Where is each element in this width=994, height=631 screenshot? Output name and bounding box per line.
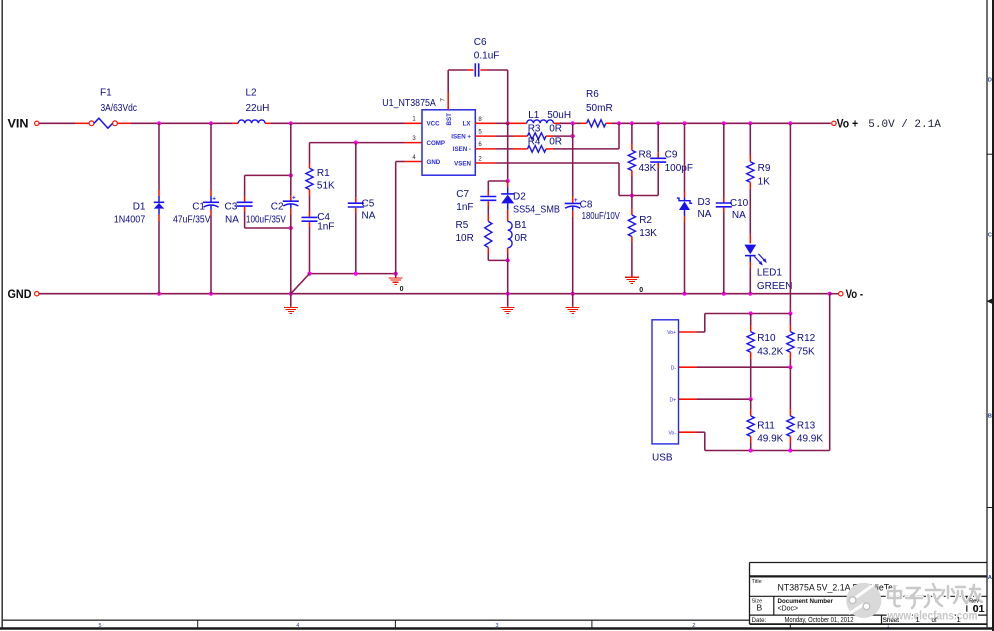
terminal Vo- <box>839 292 843 296</box>
node R1C4 rail junction <box>307 272 311 276</box>
svg-text:C8: C8 <box>580 199 593 210</box>
svg-text:Document Number: Document Number <box>778 598 834 605</box>
label C4 <box>317 212 330 223</box>
node D-/R12 junction <box>788 365 792 369</box>
svg-text:ISEN -: ISEN - <box>453 146 471 153</box>
pin U1.4 GND stub <box>405 155 422 162</box>
svg-text:L2: L2 <box>246 87 258 98</box>
node D2/B1 bottom junction <box>506 258 510 262</box>
svg-text:NA: NA <box>698 209 712 220</box>
wire L1 to R6 <box>554 122 587 124</box>
svg-text:0R: 0R <box>515 233 528 244</box>
svg-text:5.0V / 2.1A: 5.0V / 2.1A <box>868 119 941 131</box>
bottom zone number 2 <box>692 623 695 629</box>
label D1 value 1N4007 <box>114 215 146 226</box>
svg-text:B1: B1 <box>515 220 528 231</box>
label C7 <box>456 189 469 200</box>
svg-text:3: 3 <box>495 623 498 629</box>
wire BST to C6 <box>448 70 473 92</box>
label F1 <box>100 87 112 98</box>
capacitor C2 <box>283 123 299 293</box>
label R6 <box>586 89 599 100</box>
wire USB Vo+ pin <box>679 331 705 333</box>
label D3 <box>698 197 711 208</box>
svg-text:D2: D2 <box>513 191 526 202</box>
title block label Sheet <box>883 617 899 624</box>
zone divider arrow C/B <box>987 299 994 304</box>
pin name GND <box>427 159 441 166</box>
resistor R8 <box>628 123 635 195</box>
svg-text:43K: 43K <box>639 163 657 174</box>
node GND/LED1 <box>748 292 752 296</box>
svg-text:Title: Title <box>752 579 762 585</box>
port GND label <box>8 287 32 301</box>
svg-text:100pF: 100pF <box>665 163 693 174</box>
label C5 <box>362 199 375 210</box>
diode D1 <box>154 123 164 293</box>
node C3 bottom junction <box>289 226 293 230</box>
svg-text:49.9K: 49.9K <box>757 434 783 445</box>
ground 0 at U1 GND <box>389 274 404 293</box>
svg-text:D+: D+ <box>669 397 676 403</box>
wire ISEN+ up to L1 node <box>572 123 574 136</box>
capacitor C5 <box>348 143 364 274</box>
wire C7 branch <box>488 181 507 191</box>
svg-text:ISEN +: ISEN + <box>451 133 471 140</box>
svg-text:0.1uF: 0.1uF <box>474 50 500 61</box>
port Vo+ label <box>837 118 859 130</box>
svg-text:C6: C6 <box>474 37 487 48</box>
svg-text:5: 5 <box>478 129 482 135</box>
svg-text:49.9K: 49.9K <box>797 434 823 445</box>
svg-text:47uF/35V: 47uF/35V <box>173 215 211 226</box>
capacitor C7 <box>480 191 496 215</box>
ground 0 at R2 <box>625 277 643 294</box>
svg-text:VSEN: VSEN <box>454 160 471 167</box>
label C6 <box>474 37 487 48</box>
diode D2 <box>501 181 514 216</box>
pin name VSEN <box>454 160 471 167</box>
wire U1 GND pin net <box>396 162 405 274</box>
bottom zone number 3 <box>495 623 498 629</box>
svg-text:C10: C10 <box>730 198 749 209</box>
wire R12 to R13 <box>789 367 791 409</box>
node GND-pin rail junction <box>394 272 398 276</box>
resistor R1 <box>306 164 313 212</box>
svg-text:Monday, October 01, 2012: Monday, October 01, 2012 <box>785 615 854 624</box>
capacitor C4 <box>302 212 318 274</box>
label R10 value 43.2K <box>757 346 783 357</box>
label C3 value NA <box>225 215 239 226</box>
label R12 <box>797 333 816 344</box>
label R11 value 49.9K <box>757 434 783 445</box>
pin name ISEN- <box>453 146 471 153</box>
node GND/D2 <box>506 292 510 296</box>
svg-text:1nF: 1nF <box>317 222 334 233</box>
svg-text:1: 1 <box>957 615 961 624</box>
svg-text:COMP: COMP <box>427 140 446 147</box>
svg-text:1K: 1K <box>758 176 771 187</box>
svg-text:8: 8 <box>478 117 482 123</box>
ground at C2 <box>284 294 298 314</box>
label R4 value 0R <box>549 136 562 147</box>
pin U1.7 BST stub <box>440 92 448 110</box>
label B1 <box>515 220 528 231</box>
label R9 value 1K <box>758 176 771 187</box>
title block rev 01 overlay <box>973 603 985 615</box>
label LED1 <box>757 268 782 279</box>
node GND/D3 <box>682 292 686 296</box>
title block label Date <box>752 617 767 624</box>
wire C3 bottom branch <box>245 227 291 229</box>
svg-text:50uH: 50uH <box>547 110 571 121</box>
pin name COMP <box>427 140 446 147</box>
svg-text:5: 5 <box>98 623 101 629</box>
node R10 top junction <box>749 311 753 315</box>
svg-text:2: 2 <box>478 156 482 162</box>
node R3/ISEN+ junction <box>571 134 575 138</box>
svg-text:LX: LX <box>463 121 472 128</box>
svg-text:Vo+: Vo+ <box>667 330 676 336</box>
svg-text:F1: F1 <box>100 87 112 98</box>
label C4 value 1nF <box>317 222 334 233</box>
svg-text:BST: BST <box>446 113 453 126</box>
svg-text:R4: R4 <box>528 136 541 147</box>
svg-text:75K: 75K <box>797 346 815 357</box>
label C7 value 1nF <box>456 202 473 213</box>
title block date value <box>785 615 854 624</box>
svg-text:4: 4 <box>412 155 416 161</box>
resistor R10 <box>747 314 754 400</box>
port VIN label <box>8 117 29 131</box>
label C6 value 0.1uF <box>474 50 500 61</box>
node R6/ISEN- junction <box>617 121 621 125</box>
node Vo- corner junction <box>828 292 832 296</box>
label R6 value 50mR <box>586 103 613 114</box>
svg-text:C3: C3 <box>225 202 238 213</box>
LED LED1 <box>744 235 766 294</box>
sheet right outer border line <box>992 0 994 631</box>
wire USB D+ pin <box>679 398 751 400</box>
svg-text:D: D <box>988 78 992 84</box>
svg-text:R1: R1 <box>317 168 330 179</box>
bottom zone number 5 <box>98 623 101 629</box>
node VSEN/R2 junction <box>630 193 634 197</box>
wire C3 top branch <box>245 175 291 196</box>
resistor R3 <box>496 133 573 140</box>
node GND/C8 <box>571 292 575 296</box>
svg-text:6: 6 <box>478 142 482 148</box>
pin U1.8 LX stub <box>475 117 495 123</box>
label D1 <box>133 202 146 213</box>
svg-text:+: + <box>212 196 216 203</box>
wire R12 column feed <box>789 123 791 313</box>
resistor R2 <box>628 196 635 277</box>
label C9 <box>665 149 678 160</box>
node C3 top junction <box>289 173 293 177</box>
svg-text:0: 0 <box>400 286 404 293</box>
label C10 value NA <box>732 210 746 221</box>
svg-text:NT3875A 5V_2.1A For OlieTek: NT3875A 5V_2.1A For OlieTek <box>778 583 898 593</box>
zone letter A <box>988 575 992 581</box>
label R3 <box>528 124 541 135</box>
label L1 value 50uH <box>547 110 571 121</box>
capacitor C6 <box>475 63 478 76</box>
svg-text:GND: GND <box>8 287 32 301</box>
resistor R6 <box>587 120 606 127</box>
svg-text:0R: 0R <box>549 124 562 135</box>
svg-text:LED1: LED1 <box>757 268 782 279</box>
pin name BST <box>446 113 453 126</box>
node GND/C10 <box>722 292 726 296</box>
svg-text:D1: D1 <box>133 202 146 213</box>
svg-text:R8: R8 <box>639 149 652 160</box>
zone letter B <box>988 414 992 420</box>
watermark CJK squiggle <box>888 584 982 608</box>
title block label Title <box>752 579 762 585</box>
label R13 value 49.9K <box>797 434 823 445</box>
title block sheet numbers <box>916 615 961 624</box>
connector USB body <box>652 320 679 444</box>
wire L2 to U1 VCC <box>265 122 405 124</box>
svg-text:1: 1 <box>412 117 416 123</box>
node R13 bottom junction <box>788 448 792 452</box>
zone letter C <box>988 233 992 239</box>
svg-text:Rev: Rev <box>969 599 979 605</box>
title block label Size <box>752 599 763 605</box>
label C5 value NA <box>362 211 376 222</box>
label C8 <box>580 199 593 210</box>
svg-text:R6: R6 <box>586 89 599 100</box>
svg-text:+: + <box>574 197 578 204</box>
svg-text:51K: 51K <box>317 180 335 191</box>
title block rev 01 <box>973 603 985 615</box>
svg-text:<Doc>: <Doc> <box>778 606 799 613</box>
wire USB top rail <box>705 314 791 333</box>
svg-text:43.2K: 43.2K <box>757 346 783 357</box>
port Vo- label <box>846 289 864 301</box>
svg-text:100uF/35V: 100uF/35V <box>246 215 286 226</box>
svg-text:D3: D3 <box>698 197 711 208</box>
diode D3 zener <box>677 123 692 293</box>
terminal Vo+ <box>832 121 836 125</box>
node R11 bottom junction <box>749 448 753 452</box>
title block label Rev <box>969 599 979 605</box>
sheet bottom outer border line <box>0 627 994 629</box>
svg-text:R3: R3 <box>528 124 541 135</box>
svg-text:3A/63Vdc: 3A/63Vdc <box>101 103 138 114</box>
title block size B <box>757 603 763 613</box>
svg-text:3: 3 <box>412 136 416 142</box>
label R5 value 10R <box>456 233 474 244</box>
svg-text:C: C <box>988 233 992 239</box>
sheet bottom inner border line <box>2 619 749 621</box>
label U1_NT3875A <box>382 98 436 109</box>
svg-text:13K: 13K <box>639 228 657 239</box>
ground at D2 <box>501 294 515 314</box>
svg-text:10R: 10R <box>456 233 474 244</box>
label USB <box>652 452 673 463</box>
svg-text:SS54_SMB: SS54_SMB <box>513 204 560 215</box>
pin U1.3 COMP stub <box>405 136 422 143</box>
watermark url text <box>887 608 978 622</box>
wire to Vo- terminal <box>830 293 839 295</box>
label B1 value 0R <box>515 233 528 244</box>
svg-text:0R: 0R <box>549 136 562 147</box>
svg-text:C2: C2 <box>271 202 284 213</box>
svg-text:R10: R10 <box>757 333 776 344</box>
label R11 <box>757 421 775 432</box>
svg-text:C1: C1 <box>192 202 205 213</box>
svg-text:R13: R13 <box>797 421 816 432</box>
capacitor C3 <box>237 197 253 229</box>
label C2 <box>271 202 284 213</box>
label L1 <box>528 110 540 121</box>
watermark logo disc <box>846 583 881 618</box>
title block title text <box>778 583 898 593</box>
bottom zone tick 3/2 <box>591 620 593 628</box>
node R8 top junction <box>630 121 634 125</box>
label D3 value NA <box>698 209 712 220</box>
svg-text:VIN: VIN <box>8 117 29 131</box>
bottom zone tick 5/4 <box>197 620 199 628</box>
node GND/C1 <box>209 292 213 296</box>
svg-text:22uH: 22uH <box>246 103 270 114</box>
sheet right inner border line <box>986 0 988 629</box>
node GND/C2 <box>289 292 293 296</box>
svg-text:L1: L1 <box>528 110 540 121</box>
node GND/D1 <box>157 292 161 296</box>
wire F1 to L2 <box>117 122 238 124</box>
label R13 <box>797 421 816 432</box>
svg-text:B: B <box>988 414 992 420</box>
svg-text:R11: R11 <box>757 421 775 432</box>
pin U1.5 ISEN+ stub <box>475 129 495 136</box>
svg-text:A: A <box>988 575 992 581</box>
label D2 <box>513 191 526 202</box>
node D2/C7 junction <box>506 179 510 183</box>
svg-text:R9: R9 <box>758 163 771 174</box>
wire ISEN- up to bus <box>618 123 620 149</box>
fuse F1 <box>89 118 117 128</box>
svg-text:1nF: 1nF <box>456 202 473 213</box>
label R1 <box>317 168 330 179</box>
label R1 value 51K <box>317 180 335 191</box>
svg-text:7: 7 <box>440 98 446 102</box>
label output rating 5.0V / 2.1A <box>868 119 941 131</box>
svg-text:R12: R12 <box>797 333 816 344</box>
label C2 value 100uF/35V <box>246 215 286 226</box>
svg-text:U1_NT3875A: U1_NT3875A <box>382 98 436 109</box>
resistor R9 <box>747 123 754 234</box>
capacitor C8 <box>565 136 581 294</box>
pin name VCC <box>427 121 441 128</box>
svg-text:NA: NA <box>732 210 746 221</box>
svg-text:Date:: Date: <box>752 617 767 624</box>
node L2/C2 junction <box>289 121 293 125</box>
svg-text:R5: R5 <box>456 220 469 231</box>
resistor R5 <box>485 215 492 261</box>
node D3 top junction <box>682 121 686 125</box>
svg-text:Vo-: Vo- <box>668 430 676 436</box>
bottom zone tick 2/1 <box>789 624 791 628</box>
node C5 rail junction <box>354 272 358 276</box>
zone divider tick B/A <box>987 507 993 509</box>
capacitor C1 <box>203 123 219 293</box>
svg-text:NA: NA <box>225 215 239 226</box>
label C10 <box>730 198 749 209</box>
svg-text:1: 1 <box>916 615 920 624</box>
USB pin name D+ <box>669 397 676 403</box>
label R9 <box>758 163 771 174</box>
wire COMP net <box>310 143 405 164</box>
capacitor C9 <box>650 123 666 195</box>
title block label Document Number <box>778 598 834 605</box>
resistor R13 <box>787 409 794 451</box>
node R9 top junction <box>748 121 752 125</box>
USB pin name Vo- <box>668 430 676 436</box>
sheet left border line <box>1 0 3 629</box>
label R8 <box>639 149 652 160</box>
wire USB D- pin <box>679 366 791 368</box>
label L2 value 22uH <box>246 103 270 114</box>
svg-text:Sheet: Sheet <box>883 617 899 624</box>
label R5 <box>456 220 469 231</box>
label LED1 value GREEN <box>757 281 793 292</box>
USB pin name Vo+ <box>667 330 676 336</box>
label F1 value 3A/63Vdc <box>101 103 138 114</box>
wire VSEN net <box>496 163 659 196</box>
label R10 <box>757 333 776 344</box>
inductor B1 <box>508 216 512 254</box>
pin U1.2 VSEN stub <box>475 156 495 163</box>
svg-text:+: + <box>292 195 296 202</box>
svg-text:B: B <box>757 603 763 613</box>
bottom zone number 1 <box>887 624 890 630</box>
wire USB bottom rail <box>705 294 830 451</box>
node VIN/C1 junction <box>209 121 213 125</box>
svg-text:GREEN: GREEN <box>757 281 793 292</box>
USB pin name D- <box>671 365 677 371</box>
title block doc value <box>778 606 799 613</box>
label C8 value 180uF/10V <box>582 211 621 222</box>
svg-text:50mR: 50mR <box>586 103 613 114</box>
wire R5 to B1 bottom <box>488 259 507 261</box>
node COMP/C5 junction <box>354 141 358 145</box>
svg-text:D-: D- <box>671 365 677 371</box>
wire D2 column top <box>507 123 509 181</box>
title block sheet row overlay <box>883 599 979 625</box>
title block frame <box>750 563 988 625</box>
svg-text:Vo -: Vo - <box>846 289 864 301</box>
label R8 value 43K <box>639 163 657 174</box>
svg-text:Vo +: Vo + <box>837 118 859 130</box>
pin name LX <box>463 121 472 128</box>
label R4 <box>528 136 541 147</box>
svg-text:C7: C7 <box>456 189 469 200</box>
ground at C8 <box>566 294 580 314</box>
pin U1.6 ISEN- stub <box>475 142 495 149</box>
node C10 top junction <box>722 121 726 125</box>
label C1 <box>192 202 205 213</box>
label C3 <box>225 202 238 213</box>
svg-text:2: 2 <box>692 623 695 629</box>
svg-text:180uF/10V: 180uF/10V <box>582 211 621 222</box>
inductor L2 <box>238 120 265 123</box>
wire LX to L1 <box>496 122 527 124</box>
wire VIN to fuse F1 <box>39 122 89 124</box>
node VIN/D1 junction <box>157 121 161 125</box>
